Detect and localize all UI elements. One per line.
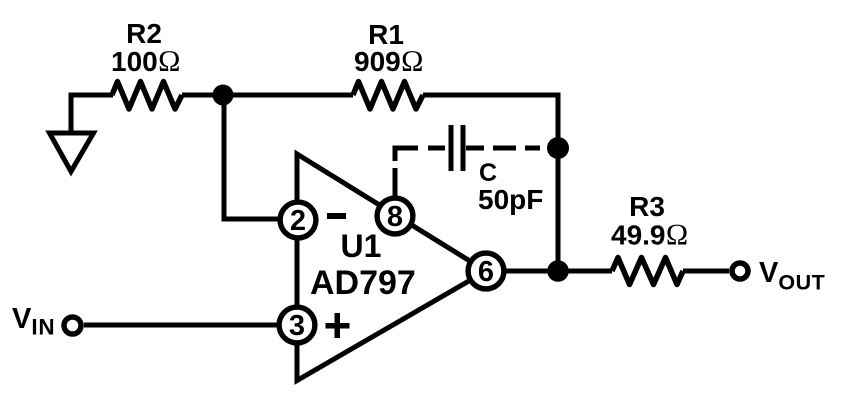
- wire dashed pin8 corner to capacitor: [395, 148, 418, 161]
- pin 3: [279, 307, 315, 343]
- resistor R1: [353, 82, 423, 110]
- svg-text:100Ω: 100Ω: [111, 45, 181, 78]
- pin 8: [377, 198, 413, 234]
- resistor R2: [112, 82, 182, 110]
- wire node A to R1: [223, 93, 353, 98]
- resistor R3: [612, 258, 683, 285]
- svg-text:50pF: 50pF: [478, 184, 543, 215]
- wire R2 to node A: [182, 93, 223, 98]
- wire dashed capacitor to node C: [466, 146, 484, 151]
- svg-text:U1: U1: [341, 228, 382, 264]
- svg-text:C: C: [479, 159, 497, 187]
- wire Vin to pin 3: [84, 323, 280, 328]
- pin 6: [468, 253, 504, 289]
- terminal VOUT: [732, 263, 748, 279]
- wire pin 6 to node B and R3: [504, 269, 612, 274]
- wire pin 8 stub: [393, 168, 398, 196]
- wire node A down and to pin 2: [224, 95, 280, 219]
- capacitor C plates: [449, 125, 454, 171]
- svg-text:R2: R2: [126, 18, 162, 49]
- svg-text:3: 3: [289, 310, 305, 342]
- svg-text:AD797: AD797: [310, 264, 416, 302]
- plus sign: [326, 313, 350, 338]
- op-amp U1: [297, 154, 486, 381]
- svg-text:R3: R3: [629, 191, 665, 222]
- svg-text:8: 8: [387, 201, 403, 233]
- pin 2: [280, 202, 316, 238]
- terminal VIN: [64, 317, 81, 334]
- wire R3 to Vout: [683, 269, 729, 274]
- ground: [50, 133, 94, 172]
- wire ground to R2: [71, 95, 113, 134]
- svg-text:49.9Ω: 49.9Ω: [611, 219, 689, 252]
- svg-text:6: 6: [478, 256, 494, 288]
- svg-text:2: 2: [290, 205, 306, 237]
- minus sign: [327, 213, 346, 219]
- node B junction dot: [547, 260, 569, 282]
- wire R1 to output node (top right corner, down to node B): [423, 95, 558, 271]
- svg-text:909Ω: 909Ω: [354, 45, 424, 78]
- node C junction dot: [547, 137, 569, 159]
- node A junction dot: [213, 85, 234, 106]
